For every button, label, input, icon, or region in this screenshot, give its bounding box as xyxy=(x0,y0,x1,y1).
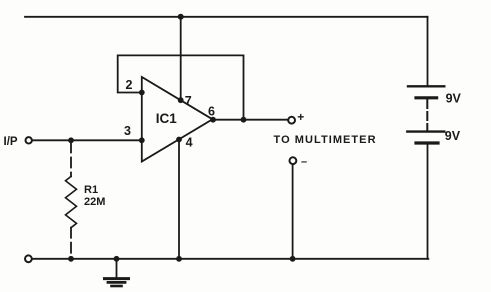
battery B2 9V negative plate xyxy=(416,141,438,144)
node junction: pin 3 on triangle left edge xyxy=(139,137,145,143)
resistor R1 22M zigzag xyxy=(66,176,77,227)
svg-text:2: 2 xyxy=(126,78,133,92)
wire top positive supply rail xyxy=(25,16,428,18)
node junction: R1 bottom on rail xyxy=(68,256,74,262)
node junction: feedback wire at pin 2 xyxy=(139,90,145,96)
wire output pin 6 to plus terminal xyxy=(213,119,289,121)
svg-text:7: 7 xyxy=(185,94,192,108)
node junction: output at op-amp apex pin 6 xyxy=(210,117,216,123)
node junction: pin 7 on triangle top edge xyxy=(178,97,184,103)
wire dashed lead R1 top xyxy=(70,143,72,177)
svg-text:9V: 9V xyxy=(445,129,461,143)
terminal input open circle xyxy=(26,137,32,143)
wire minus terminal drop to bottom rail xyxy=(292,164,294,259)
wire bottom ground rail xyxy=(32,258,428,260)
node junction: ground symbol on rail xyxy=(114,256,120,262)
ground symbol xyxy=(105,259,129,286)
svg-text:9V: 9V xyxy=(446,91,462,105)
svg-text:4: 4 xyxy=(186,136,193,150)
svg-text:IC1: IC1 xyxy=(156,111,178,126)
wire pin 7 supply drop xyxy=(180,17,182,100)
svg-text:TO MULTIMETER: TO MULTIMETER xyxy=(274,134,377,146)
svg-text:3: 3 xyxy=(124,124,131,138)
battery B2 9V positive plate xyxy=(407,130,444,132)
svg-text:–: – xyxy=(301,156,307,168)
svg-text:22M: 22M xyxy=(84,196,105,208)
wire dashed lead R1 bottom xyxy=(70,228,72,259)
node junction: R1 top tap on input wire xyxy=(68,137,74,143)
wire input I/P to pin 3 xyxy=(32,139,142,141)
svg-text:I/P: I/P xyxy=(4,136,18,148)
terminal plus output open circle xyxy=(288,117,295,124)
battery B1 9V positive plate xyxy=(408,85,444,87)
svg-text:+: + xyxy=(297,110,304,124)
wire feedback loop from pin 2 around top to output node xyxy=(118,55,244,119)
node junction: top rail to pin 7 wire xyxy=(178,14,184,20)
node junction: pin 4 on triangle bottom edge xyxy=(176,137,182,143)
wire dashed series link between batteries xyxy=(426,100,428,130)
wire pin 4 drop to bottom rail xyxy=(178,140,180,259)
svg-text:6: 6 xyxy=(208,104,215,118)
node junction: minus wire on rail xyxy=(290,256,296,262)
svg-text:R1: R1 xyxy=(84,184,98,196)
battery B1 9V negative plate xyxy=(416,96,437,99)
wire battery bottom stub to rail xyxy=(427,143,429,259)
terminal bottom left open circle xyxy=(25,255,32,262)
node junction: pin 4 wire on rail xyxy=(176,256,182,262)
op-amp U1 (IC1 triangle) xyxy=(142,77,213,162)
node junction: feedback joins output wire xyxy=(241,117,247,123)
wire battery top stub from rail xyxy=(427,17,429,87)
terminal minus output open circle xyxy=(290,157,297,164)
